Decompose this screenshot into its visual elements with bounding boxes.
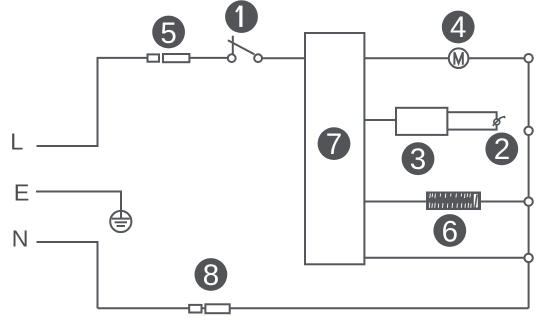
svg-text:5: 5	[160, 17, 176, 50]
svg-text:8: 8	[203, 259, 219, 292]
svg-text:3: 3	[410, 143, 426, 176]
svg-text:2: 2	[494, 133, 510, 166]
svg-text:4: 4	[450, 11, 466, 44]
svg-text:7: 7	[326, 128, 342, 161]
svg-text:6: 6	[442, 216, 458, 249]
svg-text:N: N	[12, 225, 29, 251]
svg-text:L: L	[10, 129, 23, 155]
svg-text:E: E	[14, 180, 30, 206]
